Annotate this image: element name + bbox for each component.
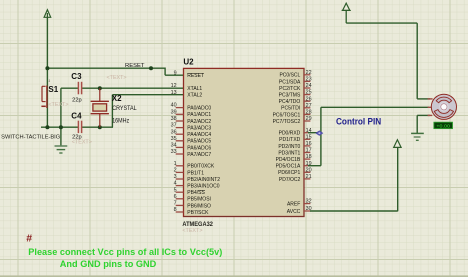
svg-text:5: 5 xyxy=(174,187,177,193)
svg-text:22: 22 xyxy=(306,70,312,76)
svg-text:PA6/ADC6: PA6/ADC6 xyxy=(187,145,211,151)
pin 12 XTAL1 xyxy=(171,83,203,92)
node Control PIN diamond marker xyxy=(316,131,323,136)
svg-text:21: 21 xyxy=(306,174,312,180)
svg-text:2: 2 xyxy=(174,168,177,174)
svg-text:PB5/MOSI: PB5/MOSI xyxy=(187,197,211,203)
svg-text:PB4/SS: PB4/SS xyxy=(187,190,205,196)
svg-text:13: 13 xyxy=(171,90,177,96)
power symbol VCC (top-left) xyxy=(44,10,51,18)
op-amp U2 ATMEGA32 IC body xyxy=(182,58,304,234)
svg-text:U2: U2 xyxy=(183,58,194,67)
pin 32 AREF xyxy=(287,199,312,208)
junction RESET/VCC xyxy=(45,66,49,70)
crystal X2 16MHz xyxy=(91,88,138,127)
svg-text:PD2/INT0: PD2/INT0 xyxy=(278,144,300,150)
pin 25 PC3/TMS xyxy=(279,90,312,99)
svg-text:PC5/TDI: PC5/TDI xyxy=(281,106,300,112)
svg-text:6: 6 xyxy=(174,194,177,200)
svg-text:PD1/TXD: PD1/TXD xyxy=(279,137,301,143)
svg-text:SWITCH-TACTILE-BIG: SWITCH-TACTILE-BIG xyxy=(1,134,60,140)
svg-text:3: 3 xyxy=(174,174,177,180)
svg-text:17: 17 xyxy=(306,148,312,154)
svg-text:And GND pins to GND: And GND pins to GND xyxy=(60,259,157,269)
pin 7 PB6/MISO xyxy=(174,201,211,210)
svg-text:PA0/ADC0: PA0/ADC0 xyxy=(187,106,211,112)
svg-text:PD3/INT1: PD3/INT1 xyxy=(278,150,300,156)
svg-text:22p: 22p xyxy=(72,97,82,103)
svg-text:PB2/AIN0INT2: PB2/AIN0INT2 xyxy=(187,177,220,183)
svg-text:PC4/TDO: PC4/TDO xyxy=(279,99,301,105)
pin 38 PA2/ADC2 xyxy=(171,116,212,125)
svg-text:PA5/ADC5: PA5/ADC5 xyxy=(187,139,211,145)
junction ground rail xyxy=(59,125,63,129)
pin 3 PB2/AIN0INT2 xyxy=(174,174,221,183)
svg-text:27: 27 xyxy=(306,103,312,109)
svg-text:XTAL1: XTAL1 xyxy=(187,86,202,92)
pin 34 PA6/ADC6 xyxy=(171,143,212,152)
wire motor minus to ground xyxy=(417,114,430,116)
pin 36 PA4/ADC4 xyxy=(171,129,212,138)
pin 29 PC7/TOSC2 xyxy=(273,116,312,125)
svg-text:24: 24 xyxy=(306,83,312,89)
ground symbol (left) xyxy=(55,146,68,153)
wire AVCC to power xyxy=(310,210,398,212)
svg-text:S1: S1 xyxy=(48,85,58,94)
svg-text:C3: C3 xyxy=(71,72,82,81)
pin 13 XTAL2 xyxy=(171,90,203,99)
svg-text:PB6/MISO: PB6/MISO xyxy=(187,203,211,209)
pin 30 AVCC xyxy=(287,206,312,215)
svg-text:<TEXT>: <TEXT> xyxy=(107,75,127,81)
pin 9 RESET xyxy=(174,70,204,79)
svg-text:<TEXT>: <TEXT> xyxy=(72,140,92,146)
pin 35 PA5/ADC5 xyxy=(171,136,212,145)
svg-text:16MHz: 16MHz xyxy=(112,118,129,124)
svg-text:PA3/ADC3: PA3/ADC3 xyxy=(187,126,211,132)
svg-text:26: 26 xyxy=(306,96,312,102)
svg-text:PA4/ADC4: PA4/ADC4 xyxy=(187,132,211,138)
svg-text:12: 12 xyxy=(171,83,177,89)
wire XTAL1 net (C3 to pin 12) xyxy=(61,87,78,89)
wire C3 left riser to ground rail xyxy=(60,88,62,127)
svg-text:20: 20 xyxy=(306,167,312,173)
wire VCC top to motor xyxy=(346,22,417,24)
svg-text:4: 4 xyxy=(174,181,177,187)
pin 39 PA1/ADC1 xyxy=(171,109,212,118)
motor angle display xyxy=(434,122,453,128)
pin 24 PC2/TCK xyxy=(279,83,311,92)
capacitor C3 22p xyxy=(71,72,126,104)
svg-text:15: 15 xyxy=(306,134,312,140)
pin 27 PC5/TDI xyxy=(281,103,311,112)
svg-text:PC6/TOSC1: PC6/TOSC1 xyxy=(273,112,301,118)
svg-text:<TEXT>: <TEXT> xyxy=(182,228,202,234)
svg-text:PC0/SCL: PC0/SCL xyxy=(279,73,300,79)
svg-text:PA7/ADC7: PA7/ADC7 xyxy=(187,152,211,158)
svg-text:9: 9 xyxy=(174,70,177,76)
wire RESET net horizontal xyxy=(47,67,165,69)
svg-text:34: 34 xyxy=(171,143,177,149)
svg-text:PD7/OC2: PD7/OC2 xyxy=(279,177,301,183)
svg-text:33: 33 xyxy=(171,149,177,155)
svg-text:25: 25 xyxy=(306,90,312,96)
svg-text:PC2/TCK: PC2/TCK xyxy=(279,86,301,92)
bottom edge line xyxy=(0,275,468,277)
pin 22 PC0/SCL xyxy=(279,70,311,79)
svg-text:XTAL2: XTAL2 xyxy=(187,93,202,99)
svg-text:35: 35 xyxy=(171,136,177,142)
svg-text:AVCC: AVCC xyxy=(287,209,301,215)
svg-text:CRYSTAL: CRYSTAL xyxy=(112,106,137,112)
svg-text:18: 18 xyxy=(306,154,312,160)
pin 23 PC1/SDA xyxy=(279,77,312,86)
capacitor C4 22p xyxy=(71,111,92,145)
pin 2 PB1/T1 xyxy=(174,168,205,177)
svg-text:7: 7 xyxy=(174,201,177,207)
svg-text:PA2/ADC2: PA2/ADC2 xyxy=(187,119,211,125)
svg-text:PC1/SDA: PC1/SDA xyxy=(279,79,301,85)
pin 14 PD0/RXD xyxy=(279,128,312,137)
svg-text:29: 29 xyxy=(306,116,312,122)
pin 28 PC6/TOSC1 xyxy=(273,110,312,119)
pin 40 PA0/ADC0 xyxy=(171,103,212,112)
svg-text:PB1/T1: PB1/T1 xyxy=(187,170,204,176)
svg-text:+0.00: +0.00 xyxy=(436,123,450,128)
svg-text:38: 38 xyxy=(171,116,177,122)
svg-text:PD6/ICP1: PD6/ICP1 xyxy=(278,170,300,176)
svg-text:X2: X2 xyxy=(112,94,122,103)
svg-text:28: 28 xyxy=(306,110,312,116)
junction on RESET wire xyxy=(149,66,153,70)
svg-text:8: 8 xyxy=(174,207,177,213)
ground symbol (right, motor) xyxy=(411,133,424,140)
switch S1 SWITCH-TACTILE-BIG xyxy=(1,79,68,140)
svg-text:PD5/OC1A: PD5/OC1A xyxy=(276,164,301,170)
svg-text:Please connect Vcc pins of all: Please connect Vcc pins of all ICs to Vc… xyxy=(28,247,222,257)
pin 17 PD3/INT1 xyxy=(278,148,311,157)
svg-text:PD4/OC1B: PD4/OC1B xyxy=(276,157,301,163)
motor M1 servo xyxy=(428,94,457,119)
svg-text:39: 39 xyxy=(171,109,177,115)
pin 4 PB3/AIN1OC0 xyxy=(174,181,220,190)
power symbol VCC (near motor, lower) xyxy=(394,140,401,148)
junction crystal/XTAL2 xyxy=(98,125,102,129)
svg-text:37: 37 xyxy=(171,123,177,129)
svg-text:PB0/T0XCK: PB0/T0XCK xyxy=(187,164,215,170)
svg-text:RESET: RESET xyxy=(187,73,204,79)
wire XTAL2 riser and to pin 13 xyxy=(111,95,113,128)
svg-text:40: 40 xyxy=(171,103,177,109)
svg-text:23: 23 xyxy=(306,77,312,83)
wire ground stem xyxy=(60,127,62,146)
pin 8 PB7/SCK xyxy=(174,207,209,216)
wire VCC to RESET junction and switch xyxy=(46,18,48,128)
wire pin14 PD0 to control node xyxy=(308,132,321,134)
wire XTAL2 bottom segment xyxy=(82,126,113,128)
wire control vertical xyxy=(320,107,322,165)
svg-text:36: 36 xyxy=(171,129,177,135)
svg-text:PD0/RXD: PD0/RXD xyxy=(279,131,301,137)
wire control to motor xyxy=(321,106,429,108)
pin 1 PB0/T0XCK xyxy=(174,161,215,170)
wire ground rail xyxy=(41,126,78,128)
svg-text:<TEXT>: <TEXT> xyxy=(48,102,68,108)
svg-text:C4: C4 xyxy=(71,111,82,120)
pin 26 PC4/TDO xyxy=(279,96,312,105)
svg-text:PB7/SCK: PB7/SCK xyxy=(187,210,209,216)
junction XTAL1/crystal xyxy=(98,86,102,90)
svg-text:PB3/AIN1OC0: PB3/AIN1OC0 xyxy=(187,184,219,190)
svg-text:RESET: RESET xyxy=(125,63,145,69)
pin 33 PA7/ADC7 xyxy=(171,149,212,158)
svg-text:Control PIN: Control PIN xyxy=(336,116,381,127)
pin 21 PD7/OC2 xyxy=(279,174,312,183)
wire pin19 PD5 to control vertical xyxy=(308,165,321,167)
svg-text:1: 1 xyxy=(174,161,177,167)
pin 16 PD2/INT0 xyxy=(278,141,311,150)
pin 37 PA3/ADC3 xyxy=(171,123,212,132)
pin 19 PD5/OC1A xyxy=(276,161,312,170)
svg-text:#: # xyxy=(26,233,32,245)
power symbol VCC (top-right) xyxy=(342,3,351,23)
pin 5 PB4/SS xyxy=(174,187,206,196)
svg-text:32: 32 xyxy=(306,199,312,205)
pin 15 PD1/TXD xyxy=(279,134,311,143)
svg-text:PA1/ADC1: PA1/ADC1 xyxy=(187,112,211,118)
svg-text:PC3/TMS: PC3/TMS xyxy=(279,93,301,99)
wire RESET step down to pin 9 xyxy=(164,68,166,76)
pin 20 PD6/ICP1 xyxy=(278,167,312,176)
svg-text:AREF: AREF xyxy=(287,202,300,208)
svg-text:16: 16 xyxy=(306,141,312,147)
svg-text:PC7/TOSC2: PC7/TOSC2 xyxy=(273,119,301,125)
pin 18 PD4/OC1B xyxy=(276,154,312,163)
junction switch/ground rail xyxy=(45,125,49,129)
pin 6 PB5/MOSI xyxy=(174,194,211,203)
